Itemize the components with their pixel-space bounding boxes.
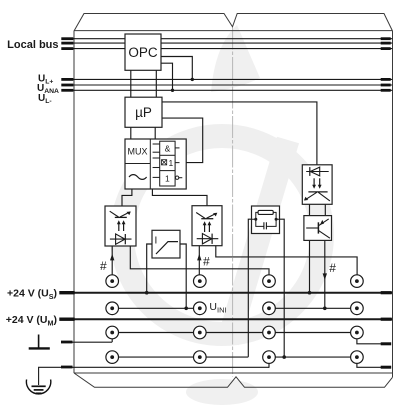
svg-text:1: 1 bbox=[165, 174, 170, 184]
terminal 4.2 bbox=[351, 302, 364, 315]
wire U1 cathode to terminal 1.3 bbox=[130, 246, 269, 275]
gate column bbox=[153, 141, 183, 186]
optocoupler U1 bbox=[105, 206, 136, 246]
junction I-box/UINI row bbox=[184, 307, 188, 311]
wire OPC to bus line1 bbox=[161, 57, 192, 80]
U3 light arrows down bbox=[313, 178, 315, 185]
terminal 2.4 bbox=[194, 351, 207, 364]
svg-text:MUX: MUX bbox=[128, 147, 148, 157]
watermark bbox=[122, 25, 322, 405]
PE (protective earth) symbol bbox=[26, 380, 50, 394]
svg-text:I: I bbox=[155, 236, 158, 247]
wire crystal left down bbox=[248, 219, 251, 357]
wire MUX to optocoupler U1 bbox=[122, 189, 132, 206]
wire U2 to terminal 2.1 bbox=[198, 246, 200, 275]
svg-text:1: 1 bbox=[169, 158, 174, 168]
+24 V (US) rail bbox=[60, 292, 393, 294]
wire OPC-uP left bbox=[130, 70, 132, 97]
junction OPC/UL+ bbox=[191, 78, 194, 81]
local bus lines bbox=[62, 39, 392, 49]
wire col5 row3 to right tick bbox=[357, 333, 381, 344]
U1 phototransistor bbox=[115, 216, 127, 218]
wire U2 cathode to terminal 2.4 bbox=[216, 246, 357, 275]
svg-text:&: & bbox=[165, 144, 171, 154]
module outline bbox=[74, 14, 393, 388]
gate output ticks bbox=[175, 147, 179, 149]
bus edge ticks right bbox=[381, 37, 391, 91]
U1 light arrows bbox=[118, 224, 120, 232]
OPC box U5 bbox=[125, 34, 161, 70]
terminal circles bbox=[106, 275, 363, 364]
wire I-box left to US rail bbox=[147, 244, 152, 293]
wire U3 to Q1 right bbox=[324, 204, 326, 215]
U3 phototransistor bbox=[308, 191, 327, 193]
terminal 2.3 bbox=[194, 326, 207, 339]
gate XOR label bbox=[162, 158, 174, 168]
FE right edge tick bbox=[381, 342, 392, 345]
arrow to terminal 1.1 bbox=[110, 254, 114, 261]
arrow on Q1 emitter wire bbox=[323, 273, 327, 280]
terminal 4.3 bbox=[351, 326, 364, 339]
wire row2 col1-col2 bbox=[112, 307, 193, 309]
wire uP-MUX right bbox=[154, 127, 156, 139]
terminal 3.3 bbox=[263, 326, 276, 339]
junction I-box/US rail bbox=[145, 291, 149, 295]
wire row4 right bbox=[269, 356, 357, 358]
+24 V (UM) rail bbox=[60, 318, 393, 320]
U1 LED bbox=[110, 238, 132, 240]
terminal 4.4 bbox=[351, 351, 364, 364]
U3 LED bbox=[306, 171, 329, 173]
svg-text:OPC: OPC bbox=[128, 45, 158, 60]
bus edge ticks left bbox=[61, 37, 73, 91]
wire row2 col3-col5 bbox=[269, 307, 357, 309]
MUX box bbox=[125, 139, 186, 189]
uP box U6 bbox=[125, 97, 162, 127]
wire row3 bbox=[112, 332, 357, 334]
UL+/UANA/UL- bus lines bbox=[62, 79, 392, 90]
crystal Y1 box bbox=[252, 206, 280, 234]
svg-text:Local bus: Local bus bbox=[7, 39, 58, 51]
terminal 2.2 bbox=[194, 302, 207, 315]
terminal 1.4 bbox=[106, 351, 119, 364]
wire OPC to bus line3 bbox=[161, 63, 173, 90]
svg-text:#: # bbox=[203, 255, 210, 269]
wire U3 to Q1 left bbox=[309, 204, 311, 215]
terminal 4.1 bbox=[351, 275, 364, 288]
wire I-box right to UINI row bbox=[180, 244, 186, 308]
wire MUX to optocoupler U2 bbox=[152, 189, 207, 206]
terminal 3.2 bbox=[263, 302, 276, 315]
wire uP-MUX left bbox=[130, 127, 132, 139]
gate input ticks bbox=[153, 143, 160, 145]
wire row4 left bbox=[112, 356, 248, 358]
wire terminal 1.2 to FE row bbox=[111, 333, 113, 343]
terminal center dots bbox=[110, 279, 359, 359]
optocoupler U3 bbox=[302, 165, 332, 205]
FE symbol bbox=[29, 335, 50, 349]
earth right edge tick bbox=[381, 366, 392, 369]
wire OPC-uP right bbox=[155, 70, 157, 97]
wire Q1 collector to US rail bbox=[309, 240, 311, 292]
junction Q1/UINI row bbox=[323, 307, 327, 311]
svg-text:µP: µP bbox=[135, 105, 152, 120]
junction crystal/row4 bbox=[282, 355, 286, 359]
bottom earth wire bbox=[39, 367, 269, 385]
wire U1 to terminal 1.1 bbox=[111, 246, 113, 275]
sine symbol bbox=[129, 175, 147, 180]
svg-text:#: # bbox=[329, 261, 336, 275]
junction OPC/UL- bbox=[171, 89, 174, 92]
wire uP to optocoupler U3 bbox=[162, 102, 317, 165]
optocoupler U2 bbox=[192, 206, 222, 246]
terminal 3.4 bbox=[263, 351, 276, 364]
wire uP to gate box bbox=[162, 118, 203, 163]
terminal 1.3 bbox=[106, 326, 119, 339]
wire col5 row4 to right tick bbox=[357, 357, 381, 367]
svg-text:#: # bbox=[100, 259, 107, 273]
junction Q1/US rail bbox=[308, 291, 312, 295]
FE tick row bbox=[62, 341, 112, 343]
transistor Q1 box bbox=[304, 216, 332, 241]
wire crystal right down bbox=[280, 219, 285, 357]
I limiter box bbox=[152, 230, 180, 258]
terminal 3.1 bbox=[263, 275, 276, 288]
terminal 1.1 bbox=[106, 275, 119, 288]
wires group bbox=[112, 57, 381, 368]
centerline bbox=[232, 28, 234, 377]
arrow to terminal 2.1 bbox=[197, 254, 201, 261]
wire Q1 emitter to UINI row bbox=[324, 240, 326, 308]
wire terminal 2.3 to earth bbox=[268, 357, 270, 368]
terminal 1.2 bbox=[106, 302, 119, 315]
terminal 2.1 bbox=[194, 275, 207, 288]
